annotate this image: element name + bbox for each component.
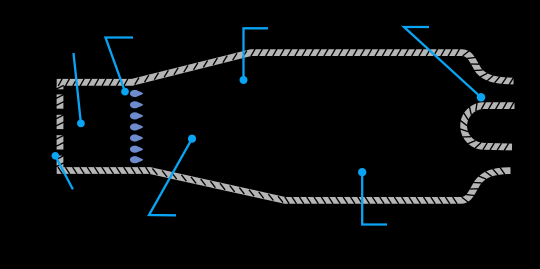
chamber top wall bbox=[57, 53, 514, 83]
callout C dot bbox=[240, 76, 248, 84]
hatch centerbody bbox=[460, 102, 514, 150]
callout C line bbox=[244, 28, 269, 80]
callout A line bbox=[74, 53, 81, 123]
callout E line bbox=[149, 139, 192, 216]
callout G line bbox=[404, 27, 481, 97]
injector plate (dashed left wall) bbox=[57, 85, 64, 89]
callout G dot bbox=[477, 93, 486, 102]
hatch injector bbox=[56, 85, 63, 166]
hatch top wall bbox=[58, 49, 513, 86]
chamber bottom wall bbox=[57, 171, 511, 201]
callout D line bbox=[55, 156, 73, 190]
callout E dot bbox=[188, 135, 196, 143]
callout F line bbox=[362, 172, 387, 224]
nozzle centerbody bbox=[464, 106, 515, 147]
callout B dot bbox=[121, 88, 129, 96]
callout D dot bbox=[52, 152, 60, 160]
callout F dot bbox=[358, 168, 366, 176]
callout B line bbox=[106, 38, 134, 92]
callout A dot bbox=[77, 120, 85, 128]
heater coil droplets bbox=[130, 90, 144, 163]
hatch bottom wall bbox=[58, 167, 505, 204]
